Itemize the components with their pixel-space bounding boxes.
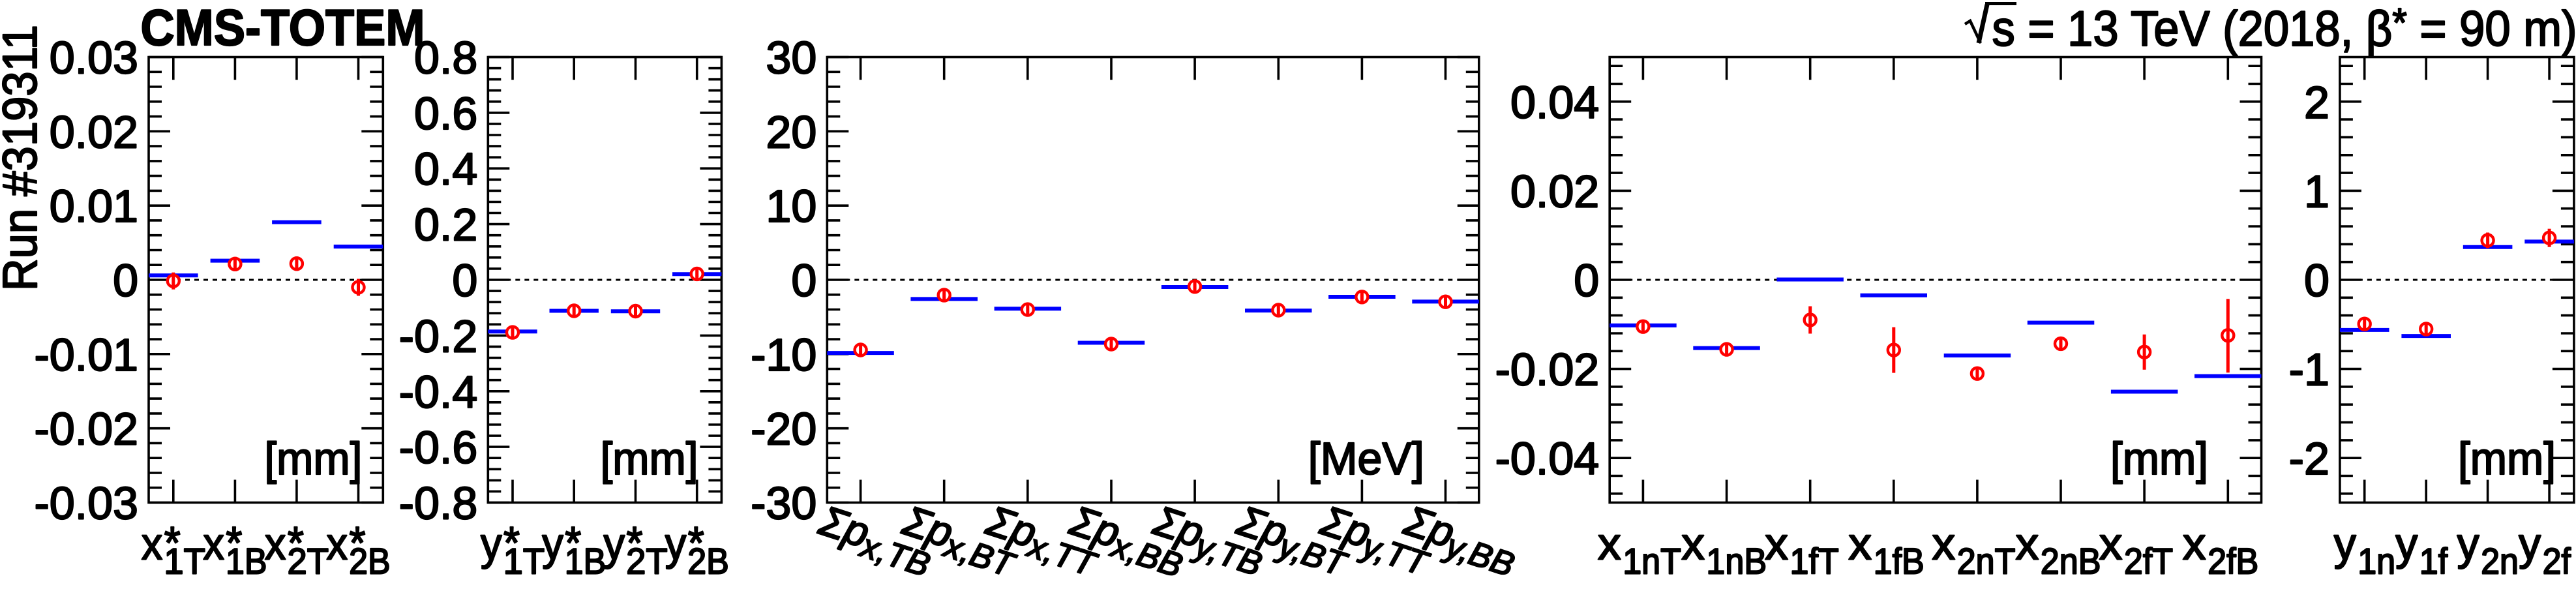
svg-text:[mm]: [mm] bbox=[264, 433, 362, 484]
svg-text:2f: 2f bbox=[2543, 541, 2571, 582]
svg-text:-30: -30 bbox=[751, 478, 816, 529]
svg-text:2nT: 2nT bbox=[1957, 541, 2016, 582]
svg-text:0.03: 0.03 bbox=[50, 33, 138, 83]
svg-text:-0.8: -0.8 bbox=[399, 478, 478, 529]
panel p5 blue reference bars bbox=[2340, 241, 2574, 336]
panel p3 y-axis labels bbox=[751, 33, 816, 529]
svg-text:y: y bbox=[2457, 519, 2479, 569]
svg-text:10: 10 bbox=[766, 181, 816, 232]
svg-text:2T: 2T bbox=[288, 541, 329, 582]
svg-text:1nB: 1nB bbox=[1706, 541, 1767, 582]
svg-text:0.02: 0.02 bbox=[1510, 166, 1599, 217]
svg-text:y: y bbox=[2519, 519, 2541, 569]
svg-text:-10: -10 bbox=[751, 329, 816, 380]
svg-text:1B: 1B bbox=[226, 541, 267, 582]
svg-text:2fB: 2fB bbox=[2208, 541, 2258, 582]
svg-text:x: x bbox=[1681, 519, 1705, 569]
panel p5 frame and ticks bbox=[2340, 57, 2574, 503]
panel p4 zero line bbox=[1610, 279, 2261, 281]
svg-text:0: 0 bbox=[2304, 255, 2329, 306]
svg-text:-0.02: -0.02 bbox=[34, 404, 138, 455]
panel p3 frame and ticks bbox=[827, 57, 1479, 503]
svg-text:x: x bbox=[2099, 519, 2123, 569]
svg-text:2fT: 2fT bbox=[2124, 541, 2173, 582]
svg-text:[mm]: [mm] bbox=[2458, 433, 2556, 484]
svg-text:1T: 1T bbox=[503, 541, 545, 582]
svg-text:-0.04: -0.04 bbox=[1495, 433, 1600, 484]
svg-text:s = 13 TeV (2018, β* = 90 m): s = 13 TeV (2018, β* = 90 m) bbox=[1992, 1, 2576, 57]
panel p4 frame and ticks bbox=[1610, 57, 2261, 503]
svg-text:y: y bbox=[542, 519, 563, 569]
svg-text:2T: 2T bbox=[626, 541, 668, 582]
panel p3 blue reference bars bbox=[827, 287, 1479, 353]
panel p1 red data points bbox=[168, 258, 365, 293]
svg-text:2n: 2n bbox=[2481, 541, 2519, 582]
svg-text:y: y bbox=[665, 519, 686, 569]
svg-text:[MeV]: [MeV] bbox=[1308, 433, 1424, 484]
panel p2 y-axis labels bbox=[399, 33, 478, 529]
svg-text:-0.6: -0.6 bbox=[399, 422, 478, 473]
svg-text:1T: 1T bbox=[164, 541, 205, 582]
svg-text:0.6: 0.6 bbox=[414, 88, 477, 139]
svg-text:2: 2 bbox=[2304, 77, 2329, 128]
svg-text:0: 0 bbox=[113, 255, 138, 306]
panel p2 zero line bbox=[488, 279, 721, 281]
svg-text:x: x bbox=[2183, 519, 2206, 569]
panel p1 blue reference bars bbox=[149, 222, 383, 276]
svg-text:[mm]: [mm] bbox=[601, 433, 698, 484]
panel p1 y-axis labels bbox=[34, 33, 138, 529]
svg-text:x: x bbox=[1848, 519, 1872, 569]
panel p1 zero line bbox=[149, 279, 383, 281]
svg-text:x: x bbox=[265, 519, 286, 569]
svg-text:30: 30 bbox=[766, 33, 816, 83]
svg-text:20: 20 bbox=[766, 106, 816, 157]
svg-text:CMS-TOTEM: CMS-TOTEM bbox=[141, 0, 425, 56]
svg-text:2B: 2B bbox=[687, 541, 729, 582]
svg-text:1: 1 bbox=[2304, 166, 2329, 217]
svg-text:y: y bbox=[2395, 519, 2418, 569]
svg-text:-1: -1 bbox=[2289, 344, 2329, 395]
svg-text:-20: -20 bbox=[751, 404, 816, 455]
svg-text:y: y bbox=[604, 519, 625, 569]
svg-text:-0.2: -0.2 bbox=[399, 310, 478, 361]
panel p4 red data points bbox=[1637, 314, 2234, 380]
svg-text:x: x bbox=[203, 519, 224, 569]
svg-text:1f: 1f bbox=[2419, 541, 2448, 582]
svg-text:x: x bbox=[142, 519, 163, 569]
svg-text:-0.02: -0.02 bbox=[1495, 344, 1600, 395]
svg-text:-0.03: -0.03 bbox=[34, 478, 138, 529]
panel p1 frame and ticks bbox=[149, 57, 383, 503]
svg-text:-2: -2 bbox=[2289, 433, 2329, 484]
svg-text:x: x bbox=[1598, 519, 1621, 569]
panel p2 red data points bbox=[507, 268, 703, 339]
panel p2 frame and ticks bbox=[488, 57, 721, 503]
svg-text:1n: 1n bbox=[2358, 541, 2395, 582]
svg-text:y: y bbox=[481, 519, 502, 569]
svg-text:0.04: 0.04 bbox=[1510, 77, 1599, 128]
panel p4 y-axis labels bbox=[1495, 77, 1600, 484]
svg-text:x: x bbox=[2016, 519, 2039, 569]
svg-text:0.02: 0.02 bbox=[50, 106, 138, 157]
svg-text:x: x bbox=[1932, 519, 1955, 569]
svg-text:0: 0 bbox=[791, 255, 816, 306]
panel p5 red data points bbox=[2359, 232, 2555, 335]
svg-text:1fT: 1fT bbox=[1790, 541, 1839, 582]
svg-text:0: 0 bbox=[1574, 255, 1599, 306]
svg-text:0.4: 0.4 bbox=[414, 143, 477, 194]
panel p5 y-axis labels bbox=[2289, 77, 2329, 484]
svg-text:0: 0 bbox=[452, 255, 477, 306]
svg-text:0.2: 0.2 bbox=[414, 200, 477, 250]
svg-text:1B: 1B bbox=[565, 541, 607, 582]
svg-text:0.01: 0.01 bbox=[50, 181, 138, 232]
panel p3 red data points bbox=[855, 280, 1452, 355]
svg-text:x: x bbox=[327, 519, 348, 569]
svg-text:Run #319311: Run #319311 bbox=[0, 25, 47, 291]
radical sign bbox=[1965, 21, 1981, 43]
svg-text:1fB: 1fB bbox=[1874, 541, 1925, 582]
panel p2 blue reference bars bbox=[488, 274, 721, 331]
panel p3 rotated x labels bbox=[811, 496, 940, 584]
svg-text:[mm]: [mm] bbox=[2110, 433, 2208, 484]
panel p5 zero line bbox=[2340, 279, 2574, 281]
svg-text:-0.01: -0.01 bbox=[34, 329, 138, 380]
panel p4 blue reference bars bbox=[1610, 280, 2261, 392]
svg-text:1nT: 1nT bbox=[1623, 541, 1681, 582]
svg-text:x: x bbox=[1765, 519, 1788, 569]
svg-text:y: y bbox=[2334, 519, 2356, 569]
panel p3 zero line bbox=[827, 279, 1479, 281]
svg-text:2nB: 2nB bbox=[2041, 541, 2101, 582]
svg-text:-0.4: -0.4 bbox=[399, 367, 478, 417]
svg-text:2B: 2B bbox=[349, 541, 391, 582]
